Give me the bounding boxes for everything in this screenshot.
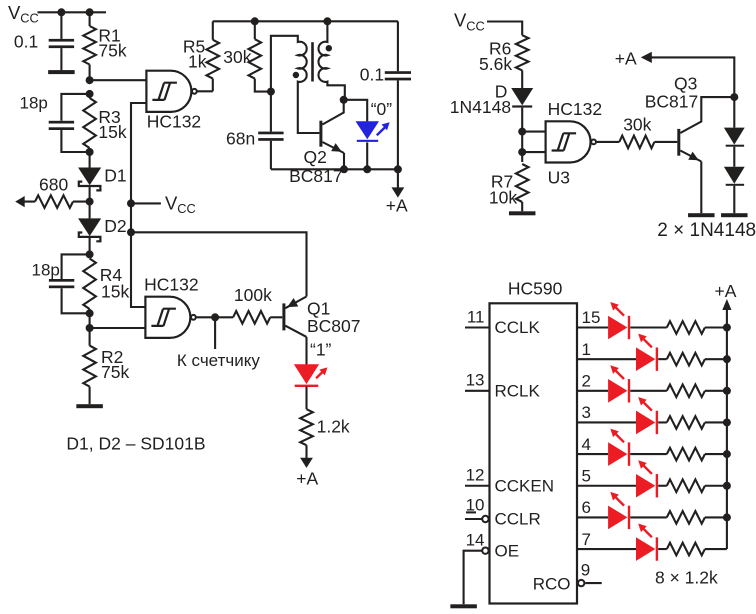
svg-text:HC132: HC132 <box>147 112 201 132</box>
svg-text:D1: D1 <box>104 165 126 185</box>
svg-text:2 × 1N4148: 2 × 1N4148 <box>657 220 756 241</box>
svg-text:75k: 75k <box>101 362 129 382</box>
diode D5 1N4148 <box>724 167 745 214</box>
junction D1/D2 node <box>86 198 94 206</box>
phase dot right winding <box>326 45 332 51</box>
svg-text:+A: +A <box>615 48 637 68</box>
svg-text:CCKEN: CCKEN <box>495 476 555 495</box>
wire oscillator top rail <box>213 20 398 22</box>
junction R4 top <box>86 250 94 258</box>
svg-text:0.1: 0.1 <box>14 32 38 52</box>
svg-text:U3: U3 <box>548 168 570 188</box>
junction U3 input B <box>518 148 526 156</box>
LED HL1 “1” (red) <box>294 339 332 387</box>
svg-text:1k: 1k <box>188 52 207 72</box>
svg-text:HC132: HC132 <box>548 99 602 119</box>
wire counter stub <box>214 317 216 349</box>
junction Q2 emitter / rail <box>340 165 348 173</box>
svg-text:15k: 15k <box>98 122 126 142</box>
net +A (rail top) <box>715 281 737 310</box>
svg-text:4: 4 <box>582 435 591 454</box>
capacitor C3 18p (lower) <box>32 254 90 313</box>
svg-text:“0”: “0” <box>371 99 393 119</box>
label 2 x 1N4148 <box>657 220 756 241</box>
junction rail row 2 <box>723 387 731 395</box>
LED/resistor row pin 6 <box>577 492 727 529</box>
transistor Q1 BC807 <box>284 297 361 365</box>
svg-text:10: 10 <box>466 496 485 515</box>
svg-text:OE: OE <box>495 541 520 560</box>
junction R1/R3 node <box>86 76 94 84</box>
junction rail row 15 <box>723 324 731 332</box>
svg-text:15k: 15k <box>101 281 129 301</box>
svg-text:BC817: BC817 <box>645 91 699 111</box>
svg-text:9: 9 <box>581 560 590 579</box>
svg-text:2: 2 <box>582 372 591 391</box>
LED/resistor row pin 1 <box>577 334 727 371</box>
svg-text:CC: CC <box>20 11 38 26</box>
label K schetchiku <box>177 351 260 370</box>
capacitor 68n <box>226 92 284 170</box>
svg-text:RCLK: RCLK <box>495 382 541 401</box>
resistor R6 5.6k <box>479 35 529 88</box>
LED/resistor row pin 3 <box>577 397 727 434</box>
svg-text:5: 5 <box>582 466 591 485</box>
pin 12 CCKEN <box>465 466 554 496</box>
pin 13 RCLK <box>465 371 541 401</box>
junction Vcc tap <box>127 199 135 207</box>
svg-text:14: 14 <box>466 530 485 549</box>
resistor R3 15k <box>83 94 127 152</box>
svg-text:V: V <box>454 10 467 31</box>
ground (under R2) <box>76 404 103 408</box>
resistor 680 with arrow <box>15 174 89 208</box>
wire U3 input B <box>522 151 545 153</box>
svg-text:11: 11 <box>467 307 485 326</box>
svg-text:+A: +A <box>715 281 737 301</box>
resistor 30k (right) <box>619 115 677 149</box>
net Vcc label (right) <box>454 10 485 34</box>
resistor R7 10k <box>489 164 529 211</box>
svg-text:68n: 68n <box>226 129 255 149</box>
pin 9 RCO (inverted) <box>533 560 602 593</box>
NAND gate U3 HC132 (schmitt) <box>546 99 602 188</box>
junction node X <box>267 88 275 96</box>
svg-text:V: V <box>165 193 178 214</box>
wire to NAND U2 input B <box>90 327 146 329</box>
svg-text:“1”: “1” <box>310 339 332 359</box>
resistor R1 75k <box>83 12 127 80</box>
pin 11 CCLK <box>465 307 541 337</box>
svg-text:CCLK: CCLK <box>495 318 541 337</box>
svg-text:13: 13 <box>466 371 485 390</box>
svg-text:1.2k: 1.2k <box>317 417 350 437</box>
capacitor C2 18p (upper) <box>20 93 90 152</box>
resistor 1.2k (Q1) <box>300 387 350 459</box>
svg-text:30k: 30k <box>623 115 651 135</box>
junction R3 top <box>86 90 94 98</box>
svg-text:7: 7 <box>582 530 591 549</box>
wire oscillator bottom rail <box>271 168 398 170</box>
svg-text:8 × 1.2k: 8 × 1.2k <box>655 567 718 587</box>
diode D4 1N4148 <box>724 97 745 167</box>
svg-text:75k: 75k <box>98 41 126 61</box>
junction LED0 / rail <box>363 165 371 173</box>
junction Q2 collector node <box>340 96 348 104</box>
svg-text:15: 15 <box>582 308 601 327</box>
svg-text:12: 12 <box>466 466 485 485</box>
wire Vcc top rail <box>38 11 107 13</box>
junction top rail / R1 <box>86 8 94 16</box>
ground (diodes) <box>721 213 748 217</box>
pin 14 OE (inverted) <box>464 530 519 604</box>
junction 30k top <box>251 17 259 25</box>
svg-text:1: 1 <box>582 340 591 359</box>
note D1 D2 type <box>66 434 205 454</box>
net +A (below 1.2k) <box>296 458 318 489</box>
junction counter tap <box>211 313 219 321</box>
svg-text:CCLR: CCLR <box>495 510 541 529</box>
resistor R2 75k <box>83 346 129 405</box>
wire to NAND U1 input A <box>90 79 147 81</box>
LED/resistor row pin 5 <box>577 460 727 497</box>
wire +A rail (HC590) <box>726 310 728 549</box>
junction R4 bottom <box>86 309 94 317</box>
svg-text:HC132: HC132 <box>144 274 198 294</box>
wire Vcc right <box>487 22 522 36</box>
NAND gate U2 HC132 (schmitt) <box>144 274 198 338</box>
LED/resistor row pin 4 <box>577 429 727 466</box>
svg-text:0.1: 0.1 <box>360 65 384 85</box>
svg-text:6: 6 <box>582 498 591 517</box>
LED/resistor row pin 7 <box>577 524 727 561</box>
svg-text:100k: 100k <box>234 285 272 305</box>
junction U3 input A <box>518 128 526 136</box>
net Vcc (mid) <box>131 193 196 217</box>
pin 10 CCLR (inverted) <box>465 496 541 529</box>
wire U2 output <box>196 316 215 318</box>
wire node to Q1 emitter <box>131 232 307 296</box>
svg-text:+A: +A <box>296 468 318 488</box>
junction top rail / C1 <box>57 8 65 16</box>
svg-text:18p: 18p <box>32 260 60 279</box>
ground (under C1) <box>48 70 75 74</box>
resistor 30k (osc) <box>223 21 271 91</box>
svg-text:D1, D2 – SD101B: D1, D2 – SD101B <box>66 434 205 454</box>
resistor R5 1k <box>183 21 219 91</box>
NAND gate U1 HC132 (schmitt) <box>146 71 201 132</box>
svg-text:10k: 10k <box>489 187 517 207</box>
diode D3 1N4148 <box>450 82 533 162</box>
wire U3 output <box>596 141 619 143</box>
LED/resistor row pin 2 <box>577 365 727 402</box>
junction rail row 6 <box>723 513 731 521</box>
svg-text:Q2: Q2 <box>304 147 327 167</box>
svg-text:30k: 30k <box>223 47 251 67</box>
svg-text:CC: CC <box>466 18 484 33</box>
net +A (arrow left) <box>615 48 735 97</box>
svg-text:5.6k: 5.6k <box>479 54 512 74</box>
svg-text:RCO: RCO <box>533 575 571 594</box>
capacitor C4 0.1 (osc) <box>360 21 411 169</box>
junction rail row 3 <box>723 418 731 426</box>
junction osc rail bottom <box>394 165 402 173</box>
wire chain R4-R2 <box>89 313 91 345</box>
wire U3 input A <box>522 131 545 133</box>
svg-text:HC590: HC590 <box>508 279 563 299</box>
ground (Q3 emitter) <box>688 213 715 217</box>
LED/resistor row pin 15 <box>577 302 727 339</box>
junction rail row 1 <box>723 355 731 363</box>
wire U1 input B drop (to U2) <box>131 103 146 307</box>
svg-text:V: V <box>8 2 21 23</box>
capacitor C1 0.1 <box>14 12 74 70</box>
junction transformer top <box>323 17 331 25</box>
junction Q3 collector node <box>730 93 738 101</box>
svg-text:+A: +A <box>386 196 408 216</box>
junction D2 node to Q1 <box>127 228 135 236</box>
svg-text:680: 680 <box>39 174 68 194</box>
resistor R4 15k <box>83 259 129 314</box>
phase dot left winding <box>293 72 299 78</box>
svg-text:3: 3 <box>582 403 591 422</box>
label 8 x 1.2k <box>655 567 718 587</box>
junction rail row 4 <box>723 450 731 458</box>
ground (pin 14) <box>450 604 477 608</box>
svg-text:CC: CC <box>177 201 195 216</box>
junction rail row 5 <box>723 482 731 490</box>
ground (under R7) <box>509 211 536 215</box>
svg-text:К счетчику: К счетчику <box>177 351 260 370</box>
svg-text:1N4148: 1N4148 <box>450 97 511 117</box>
diode D1 SD101B (schottky) <box>78 152 126 202</box>
transistor Q2 BC817 <box>289 100 344 186</box>
transformer T1 <box>271 21 345 133</box>
LED HL2 “0” (blue) <box>344 99 393 169</box>
svg-text:18p: 18p <box>20 93 48 112</box>
resistor 100k <box>215 285 282 324</box>
junction R3 bottom <box>86 148 94 156</box>
wire U1 output to R5 <box>197 90 213 92</box>
net +A (osc, down arrow) <box>386 169 408 215</box>
svg-text:BC807: BC807 <box>307 316 361 336</box>
junction NAND U2 input node <box>86 324 94 332</box>
net Vcc label (top left) <box>8 2 39 26</box>
svg-text:D2: D2 <box>104 216 126 236</box>
svg-text:BC817: BC817 <box>289 166 343 186</box>
transistor Q3 BC817 <box>645 74 735 214</box>
diode D2 SD101B (schottky) <box>78 202 126 255</box>
IC U4 HC590 box <box>490 279 578 604</box>
